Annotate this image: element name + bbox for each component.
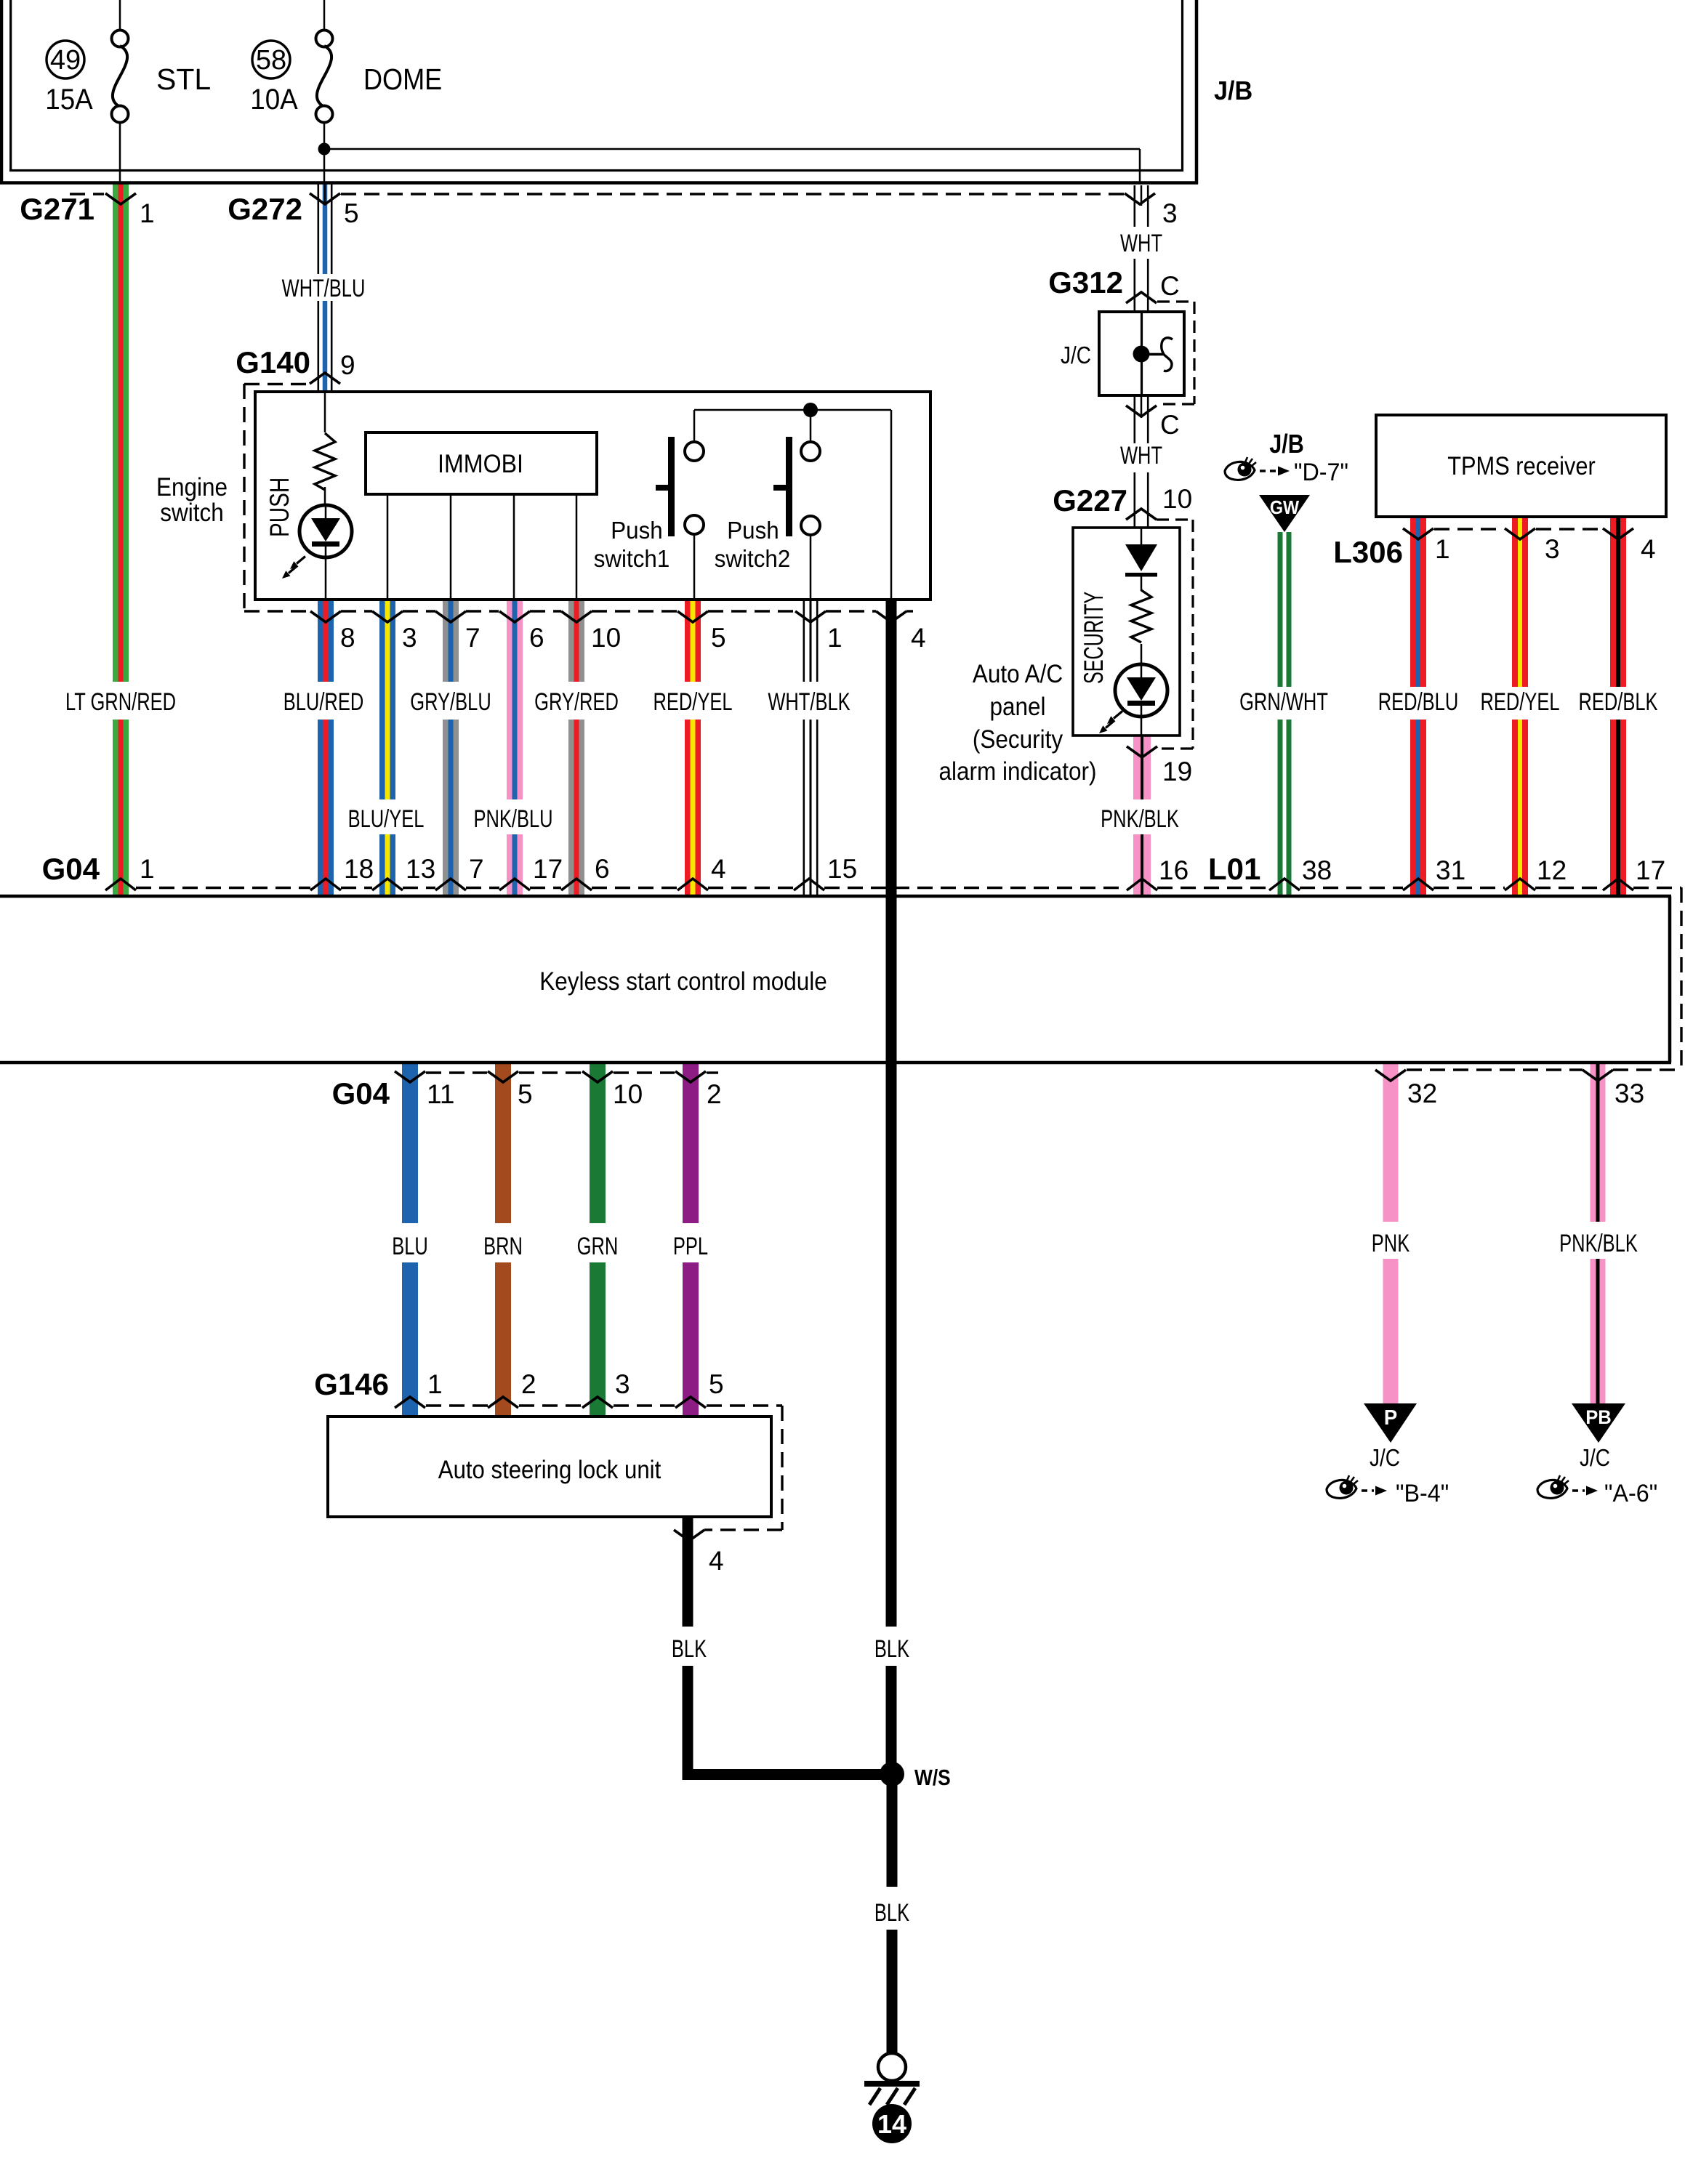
svg-text:49: 49: [50, 45, 81, 76]
svg-text:PNK/BLK: PNK/BLK: [1101, 806, 1179, 833]
TPMS receiver box: [1376, 415, 1666, 517]
G146 dashed outline right side: [704, 1406, 782, 1530]
svg-text:5: 5: [344, 198, 359, 228]
svg-text:G140: G140: [236, 345, 310, 379]
wire WHT/BLK (G140-1 to G04-15): [803, 600, 805, 682]
svg-text:G271: G271: [20, 192, 94, 226]
wire GRY/BLU (G140-7 to G04-7): [443, 600, 459, 682]
svg-text:GRY/RED: GRY/RED: [534, 689, 619, 716]
svg-text:9: 9: [340, 350, 355, 380]
svg-text:4: 4: [911, 623, 926, 653]
LED push illumination: [299, 505, 352, 598]
wire RED/YEL (TPMS-3 to L01-12): [1512, 517, 1528, 687]
svg-text:GRY/BLU: GRY/BLU: [410, 689, 491, 716]
resistor R (security circuit): [1131, 590, 1151, 642]
wire PNK/BLU (G140-6 to G04-17): [507, 600, 523, 799]
svg-text:19: 19: [1162, 757, 1192, 786]
svg-text:10: 10: [1162, 484, 1192, 514]
svg-text:10A: 10A: [250, 84, 298, 116]
svg-text:BLU/YEL: BLU/YEL: [348, 806, 425, 833]
svg-text:RED/YEL: RED/YEL: [1480, 689, 1559, 716]
svg-text:BLK: BLK: [874, 1636, 909, 1663]
svg-text:SECURITY: SECURITY: [1078, 592, 1109, 684]
connector L306 pins 1,3,4: [1333, 528, 1655, 569]
connector G140 pin 9: [236, 345, 355, 384]
ground reference 14: [872, 2104, 912, 2143]
svg-text:PB: PB: [1585, 1406, 1612, 1428]
wire PPL (G04-2 to G146-5): [683, 1064, 699, 1223]
svg-text:(Security: (Security: [973, 726, 1063, 754]
internal wire to pin 4 with junction dot: [694, 403, 892, 598]
svg-text:33: 33: [1614, 1079, 1644, 1108]
wire BLU/YEL (G140-3 to G04-13): [379, 600, 395, 799]
svg-text:PNK/BLU: PNK/BLU: [473, 806, 552, 833]
svg-text:1: 1: [140, 198, 155, 228]
svg-text:WHT/BLU: WHT/BLU: [282, 275, 366, 302]
svg-text:G312: G312: [1048, 265, 1123, 299]
svg-text:1: 1: [827, 623, 842, 653]
svg-text:RED/BLU: RED/BLU: [1378, 689, 1459, 716]
svg-text:G04: G04: [332, 1076, 390, 1111]
svg-text:G04: G04: [42, 852, 100, 886]
wire LT GRN/RED (G271-1 to keyless module G04-1): [113, 185, 129, 682]
svg-text:"D-7": "D-7": [1294, 459, 1348, 486]
svg-text:GW: GW: [1270, 498, 1300, 518]
eye reference to B-4: [1327, 1475, 1449, 1507]
Keyless start control module box: [0, 895, 1671, 1065]
svg-text:7: 7: [469, 854, 484, 884]
svg-text:L306: L306: [1333, 535, 1403, 569]
svg-text:J/C: J/C: [1580, 1445, 1610, 1472]
svg-text:Auto A/C: Auto A/C: [973, 661, 1063, 689]
W/S junction node: [880, 1762, 951, 1791]
svg-text:8: 8: [340, 623, 355, 653]
svg-text:32: 32: [1407, 1079, 1437, 1108]
svg-text:TPMS receiver: TPMS receiver: [1447, 451, 1596, 480]
svg-text:STL: STL: [156, 63, 211, 96]
svg-text:Push: Push: [611, 517, 662, 544]
svg-text:PUSH: PUSH: [265, 478, 295, 537]
svg-text:LT GRN/RED: LT GRN/RED: [65, 689, 176, 716]
label Engine switch: [156, 474, 228, 528]
connector L01 row1 label and pin numbers: [1159, 852, 1665, 886]
svg-text:1: 1: [140, 854, 155, 884]
svg-text:IMMOBI: IMMOBI: [438, 451, 523, 479]
connector G140 bottom row pins 8,3,7,6,10,5,1,4: [244, 611, 926, 653]
wire BRN (G04-5 to G146-2): [495, 1064, 511, 1223]
svg-text:BLK: BLK: [874, 1900, 909, 1927]
svg-text:G272: G272: [228, 192, 302, 226]
wire RED/BLU (TPMS-1 to L01-31): [1410, 517, 1426, 687]
push switch 2: [773, 410, 820, 598]
wire BLK (W/S junction to ground): [887, 1780, 898, 1887]
wire GRY/RED (G140-10 to G04-6): [568, 600, 584, 682]
resistor (push illumination): [315, 393, 335, 505]
dashed connector outline G140: [244, 384, 310, 611]
svg-text:J/C: J/C: [1370, 1445, 1400, 1472]
Auto steering lock unit box: [328, 1417, 771, 1517]
connector G312 C (upper): [1048, 265, 1179, 303]
push switch 1: [656, 410, 704, 598]
svg-text:7: 7: [465, 623, 480, 653]
GW triangle (to junction block): [1259, 495, 1310, 532]
wire BLU (G04-11 to G146-1): [402, 1064, 418, 1223]
svg-text:PNK: PNK: [1372, 1230, 1409, 1257]
J/C triangle PB: [1572, 1403, 1625, 1443]
svg-text:GRN: GRN: [577, 1233, 619, 1260]
wire from junction dot to J/B pin 3 (inside J/B): [323, 148, 1141, 184]
svg-text:11: 11: [427, 1079, 454, 1109]
svg-text:BRN: BRN: [483, 1233, 523, 1260]
connector G227 pin 19: [1127, 746, 1192, 786]
L01 dashed corner (right edge): [1680, 887, 1682, 1070]
svg-text:3: 3: [615, 1369, 630, 1399]
wire BLU/RED (G140-8 to G04-18): [318, 600, 334, 682]
LED emission arrows (push): [290, 557, 305, 570]
svg-text:13: 13: [406, 854, 435, 884]
svg-text:DOME: DOME: [363, 63, 442, 97]
connector G04 row2 label and pins 11,5,10,2: [332, 1071, 722, 1111]
J/C triangle P: [1364, 1403, 1417, 1443]
IMMOBI unit box: [366, 432, 597, 494]
svg-text:3: 3: [1545, 534, 1560, 564]
svg-text:C: C: [1160, 410, 1180, 440]
svg-text:4: 4: [711, 854, 726, 884]
svg-text:WHT: WHT: [1120, 443, 1162, 470]
svg-text:17: 17: [1636, 855, 1665, 885]
svg-text:"A-6": "A-6": [1604, 1480, 1657, 1507]
svg-text:4: 4: [1641, 534, 1656, 564]
LED security indicator: [1115, 644, 1167, 736]
svg-text:switch: switch: [160, 499, 223, 528]
svg-text:PNK/BLK: PNK/BLK: [1559, 1230, 1638, 1257]
wire WHT/BLU (G272-5 to engine switch G140-9): [318, 185, 320, 275]
svg-text:alarm indicator): alarm indicator): [939, 758, 1097, 786]
wire PNK/BLK (G227-19 to L01-16): [1133, 736, 1151, 799]
svg-text:J/B: J/B: [1214, 76, 1252, 105]
short dash left of G271 chevron: [70, 193, 104, 195]
svg-text:31: 31: [1436, 855, 1465, 885]
connector G227 pin 10: [1053, 483, 1193, 520]
svg-text:GRN/WHT: GRN/WHT: [1239, 689, 1328, 716]
connector G312 C (lower): [1126, 406, 1180, 440]
diode D (security circuit): [1125, 528, 1157, 591]
svg-text:BLU/RED: BLU/RED: [283, 689, 364, 716]
svg-text:15A: 15A: [45, 84, 93, 116]
wire WHT (J/B-3 to G312-C): [1134, 185, 1136, 227]
svg-text:Auto steering lock unit: Auto steering lock unit: [438, 1456, 661, 1484]
svg-text:PPL: PPL: [673, 1233, 708, 1260]
wire RED/BLK (TPMS-4 to L01-17): [1610, 517, 1626, 687]
svg-text:3: 3: [402, 623, 417, 653]
svg-text:switch1: switch1: [594, 545, 669, 572]
svg-text:5: 5: [709, 1369, 724, 1399]
svg-text:16: 16: [1159, 855, 1189, 885]
connector G146 pin 4: [674, 1530, 724, 1576]
connector G271 pin 1: [20, 192, 154, 228]
LED emission arrows (security): [1107, 712, 1122, 725]
svg-text:P: P: [1384, 1405, 1397, 1429]
wire WHT (G312-C to G227-10): [1134, 395, 1136, 443]
svg-text:58: 58: [256, 45, 286, 76]
wire PNK/BLK (L01-33 to J/C PB): [1591, 1064, 1606, 1222]
eye reference to A-6: [1537, 1475, 1657, 1507]
svg-text:5: 5: [518, 1079, 533, 1109]
label Push switch1: [594, 517, 669, 572]
svg-text:G227: G227: [1053, 483, 1127, 517]
svg-text:10: 10: [591, 623, 621, 653]
wire GRN/WHT (GW triangle to L01-38): [1278, 532, 1283, 687]
label Push switch2: [715, 517, 790, 572]
svg-text:BLK: BLK: [672, 1636, 707, 1663]
wire RED/YEL (G140-5 to G04-4): [685, 600, 701, 682]
wire GRN (G04-10 to G146-3): [590, 1064, 606, 1223]
svg-text:3: 3: [1162, 198, 1178, 228]
connector J/B pin 3: [1125, 193, 1178, 228]
dashed outline right of J/C box: [1157, 302, 1194, 404]
svg-text:J/C: J/C: [1061, 342, 1091, 369]
connector G04/L01 row1 dashed line and chevrons: [105, 879, 1681, 890]
fuse F58 10A DOME: [250, 0, 442, 149]
svg-text:RED/BLK: RED/BLK: [1578, 689, 1657, 716]
svg-text:C: C: [1160, 271, 1180, 301]
svg-text:15: 15: [827, 854, 857, 884]
svg-text:1: 1: [427, 1369, 443, 1399]
svg-text:2: 2: [707, 1079, 722, 1109]
wire BLK (G140-4 through module to W/S junction, thick): [886, 600, 897, 1627]
svg-text:W/S: W/S: [914, 1765, 951, 1790]
IMMOBI pin wires: [387, 494, 578, 598]
dashed line G272 to J/B pin 3: [341, 193, 1124, 195]
svg-text:Keyless start control module: Keyless start control module: [539, 968, 827, 996]
connector G146 row pins 1,2,3,5: [314, 1367, 782, 1408]
svg-text:RED/YEL: RED/YEL: [653, 689, 732, 716]
svg-text:17: 17: [533, 854, 563, 884]
svg-text:5: 5: [711, 623, 726, 653]
fuse F49 15A STL: [45, 0, 211, 182]
connector G272 pin 5: [228, 192, 358, 228]
wire BLK (G146-4 to W/S junction): [683, 1517, 693, 1627]
svg-text:switch2: switch2: [715, 545, 790, 572]
label Auto A/C panel (Security alarm indicator): [939, 661, 1097, 786]
svg-text:BLU: BLU: [392, 1233, 428, 1260]
svg-text:10: 10: [613, 1079, 643, 1109]
engine switch box: [255, 392, 930, 600]
svg-text:6: 6: [595, 854, 610, 884]
connector L01 row2 pins 32,33: [1375, 1070, 1681, 1108]
svg-text:"B-4": "B-4": [1396, 1480, 1449, 1507]
junction dot node (fuse 58 output): [318, 143, 331, 156]
svg-text:1: 1: [1435, 534, 1450, 564]
svg-text:L01: L01: [1208, 852, 1260, 886]
junction block J/B (top, double-line box): [0, 0, 1198, 185]
svg-text:WHT/BLK: WHT/BLK: [768, 689, 850, 716]
svg-text:38: 38: [1302, 855, 1332, 885]
G04 row1 pin numbers: [140, 854, 857, 884]
svg-text:18: 18: [344, 854, 374, 884]
svg-text:J/B: J/B: [1269, 430, 1304, 459]
eye reference to D-7: [1225, 457, 1348, 486]
Auto A/C panel box (G227): [1073, 528, 1180, 736]
svg-text:14: 14: [877, 2109, 906, 2139]
svg-text:4: 4: [709, 1546, 724, 1576]
ground symbol: [864, 2053, 920, 2105]
wire PNK (L01-32 to J/C P): [1383, 1064, 1399, 1222]
svg-text:Push: Push: [727, 517, 779, 544]
dashed outline right of G227 box: [1160, 520, 1193, 749]
svg-text:G146: G146: [314, 1367, 389, 1401]
svg-text:6: 6: [529, 623, 544, 653]
svg-text:2: 2: [521, 1369, 536, 1399]
svg-text:panel: panel: [989, 693, 1045, 722]
svg-text:Engine: Engine: [156, 474, 228, 502]
svg-text:WHT: WHT: [1120, 230, 1162, 257]
svg-text:12: 12: [1537, 855, 1567, 885]
junction connector J/C G312 box: [1099, 312, 1184, 395]
